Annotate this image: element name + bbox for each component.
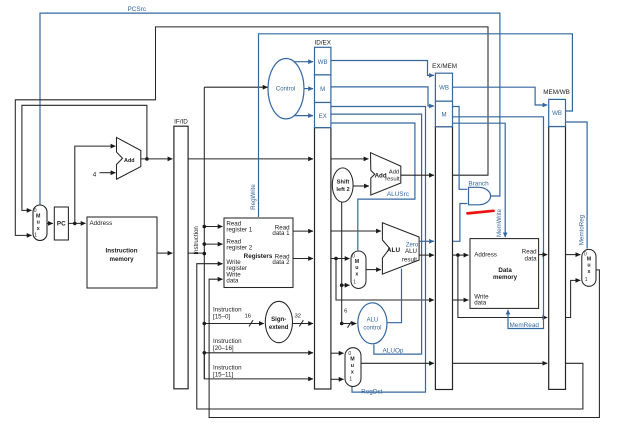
wire shift-left-2 to branch adder bbox=[353, 185, 369, 187]
svg-text:ALU: ALU bbox=[387, 247, 401, 254]
svg-text:PC: PC bbox=[57, 220, 66, 227]
wire ALUSrc (ID/EX EX to ALU mux select) bbox=[331, 123, 415, 250]
wire write register number RegDst mux to EX/MEM bbox=[361, 362, 434, 364]
svg-text:WB: WB bbox=[439, 85, 449, 92]
svg-text:u: u bbox=[587, 263, 590, 269]
svg-text:Address: Address bbox=[90, 220, 113, 227]
svg-text:x: x bbox=[351, 369, 354, 375]
wire read data 1 to ID/EX bbox=[293, 230, 313, 232]
svg-text:Add: Add bbox=[124, 158, 134, 164]
svg-text:x: x bbox=[588, 269, 591, 275]
wire ALU result EX/MEM to data memory address bbox=[453, 253, 469, 257]
wire read data 1 ID/EX to ALU bbox=[331, 230, 381, 232]
mux write-back (MemtoReg) bbox=[582, 249, 596, 286]
svg-text:M: M bbox=[441, 112, 446, 119]
svg-text:ALU: ALU bbox=[367, 318, 379, 324]
svg-text:Instruction: Instruction bbox=[193, 226, 200, 255]
wire sign-extend to ID/EX bbox=[293, 314, 314, 327]
wire ID/EX [15-11] to RegDst mux bbox=[331, 378, 344, 380]
wire ALU result bypass to MEM/WB bbox=[458, 255, 547, 317]
svg-text:MEM/WB: MEM/WB bbox=[543, 89, 570, 96]
svg-text:u: u bbox=[351, 363, 354, 369]
svg-text:data 1: data 1 bbox=[272, 230, 290, 237]
wire instruction [20-16] to ID/EX bbox=[203, 351, 314, 355]
svg-text:[15–0]: [15–0] bbox=[213, 313, 230, 320]
wire ID/EX M to EX/MEM M bbox=[331, 87, 434, 106]
svg-text:PCSrc: PCSrc bbox=[127, 6, 146, 13]
svg-text:left 2: left 2 bbox=[336, 187, 349, 193]
wire ALU result to EX/MEM bbox=[419, 254, 434, 256]
pipeline register MEM/WB bbox=[543, 89, 570, 389]
svg-text:M: M bbox=[350, 357, 355, 363]
svg-text:16: 16 bbox=[245, 314, 252, 320]
svg-text:1: 1 bbox=[353, 279, 356, 285]
pipeline register ID/EX bbox=[314, 40, 331, 389]
svg-text:Branch: Branch bbox=[468, 181, 489, 188]
EX/MEM WB field bbox=[435, 73, 452, 101]
svg-text:x: x bbox=[37, 226, 40, 232]
svg-text:MemWrite: MemWrite bbox=[496, 208, 503, 237]
svg-text:[20–16]: [20–16] bbox=[213, 345, 234, 352]
wire EX/MEM WB to MEM/WB WB bbox=[453, 87, 548, 105]
adder Add (branch target) bbox=[371, 153, 401, 195]
svg-text:Shift: Shift bbox=[337, 180, 350, 186]
svg-text:memory: memory bbox=[109, 256, 134, 263]
wire PC to instruction memory bbox=[68, 222, 85, 224]
svg-text:Sign-: Sign- bbox=[271, 316, 286, 323]
wire zero EX/MEM to AND gate bbox=[453, 204, 468, 242]
wire control to ID/EX M bbox=[304, 88, 313, 90]
svg-text:MemRead: MemRead bbox=[509, 322, 539, 329]
svg-text:memory: memory bbox=[493, 274, 518, 281]
wire read data 2 to ID/EX bbox=[293, 258, 313, 260]
wire read data MEM/WB to write-back mux 0 bbox=[566, 254, 581, 256]
wire funct to ALU control bbox=[342, 309, 357, 328]
svg-text:register 2: register 2 bbox=[226, 244, 252, 251]
wire sign-extend branch (vertical to shift-left-2 and ALU mux) bbox=[340, 202, 350, 325]
svg-text:6: 6 bbox=[344, 309, 348, 315]
pipeline register IF/ID bbox=[174, 118, 188, 388]
svg-text:ID/EX: ID/EX bbox=[314, 40, 331, 47]
wire data memory read data to MEM/WB bbox=[539, 254, 548, 256]
wire RegWrite (MEM/WB WB back to registers) bbox=[259, 34, 573, 217]
wire write data memory (EX/MEM to data memory) bbox=[453, 299, 469, 301]
pipeline register EX/MEM bbox=[432, 63, 457, 389]
data memory bbox=[470, 239, 539, 309]
wire RegDst (ID/EX EX to RegDst mux) bbox=[331, 107, 426, 393]
junction PC+4 bbox=[145, 157, 149, 161]
wire PC+4 IF/ID to ID/EX bbox=[188, 158, 313, 160]
svg-text:1: 1 bbox=[349, 377, 352, 383]
wire ID/EX [20-16] to RegDst mux bbox=[331, 352, 344, 354]
MEM/WB WB field bbox=[549, 99, 566, 126]
svg-text:result: result bbox=[385, 177, 400, 183]
wire instruction [15-0] to sign-extend bbox=[203, 314, 264, 327]
wire MemtoReg (MEM/WB WB to write-back mux select) bbox=[566, 122, 588, 249]
svg-text:4: 4 bbox=[93, 171, 97, 178]
wire mux to PC bbox=[47, 222, 53, 224]
svg-text:M: M bbox=[355, 259, 360, 265]
registers file bbox=[224, 218, 293, 288]
wire Branch (EX/MEM M to AND gate) bbox=[453, 107, 468, 190]
svg-text:x: x bbox=[355, 271, 358, 277]
ALU bbox=[382, 223, 419, 274]
wire ALU result MEM/WB to write-back mux 1 bbox=[566, 280, 581, 317]
svg-text:[15–11]: [15–11] bbox=[213, 371, 233, 378]
wire PC to Add bbox=[75, 146, 116, 223]
svg-text:EX: EX bbox=[319, 113, 327, 120]
svg-text:control: control bbox=[363, 325, 381, 331]
junction PC output bbox=[73, 222, 77, 226]
svg-text:MemtoReg: MemtoReg bbox=[579, 214, 586, 245]
svg-text:WB: WB bbox=[552, 110, 562, 117]
svg-text:Registers: Registers bbox=[244, 253, 273, 260]
instruction memory bbox=[87, 217, 157, 288]
wire instruction [15-11] to ID/EX bbox=[204, 353, 313, 379]
wire PCSrc (blue, AND gate to PC mux select) bbox=[40, 13, 500, 204]
svg-text:Add: Add bbox=[389, 169, 399, 175]
svg-text:IF/ID: IF/ID bbox=[174, 118, 188, 125]
svg-text:ALUOp: ALUOp bbox=[383, 347, 404, 354]
wire 4 to Add bbox=[100, 172, 116, 174]
wire PC+4 to mux input 0 bbox=[22, 105, 147, 210]
svg-text:1: 1 bbox=[585, 277, 588, 283]
wire ALU mux to ALU bbox=[366, 269, 381, 271]
svg-text:Control: Control bbox=[276, 86, 295, 92]
wire ALU control to ALU bbox=[387, 269, 402, 323]
shift left 2 unit bbox=[332, 168, 353, 202]
wire read data 2 ID/EX to ALU mux and EX/MEM bbox=[331, 257, 434, 300]
svg-text:RegDst: RegDst bbox=[361, 389, 383, 396]
wire branch target (EX/MEM to PC mux input 1) bbox=[15, 27, 488, 236]
svg-text:M: M bbox=[320, 86, 325, 93]
mux ALUSrc bbox=[351, 251, 366, 289]
wire branch adder to EX/MEM bbox=[401, 174, 434, 176]
svg-text:RegWrite: RegWrite bbox=[250, 184, 257, 210]
svg-text:Instruction: Instruction bbox=[106, 248, 138, 255]
ID/EX WB field bbox=[315, 47, 331, 75]
svg-text:ALU: ALU bbox=[405, 248, 417, 255]
register PC bbox=[54, 207, 68, 240]
mux PC source bbox=[33, 205, 47, 241]
wire write-back mux output to registers write data bbox=[209, 270, 599, 418]
svg-text:data: data bbox=[525, 255, 538, 262]
wire MemWrite (EX/MEM M to data memory top) bbox=[453, 123, 506, 237]
annotation red marker line bbox=[468, 211, 494, 214]
svg-text:M: M bbox=[36, 213, 41, 219]
ALU control unit bbox=[358, 303, 387, 344]
AND gate branch bbox=[469, 187, 491, 205]
svg-text:data: data bbox=[474, 300, 487, 307]
svg-text:ALUSrc: ALUSrc bbox=[387, 191, 410, 198]
wire write register number EX/MEM to MEM/WB bbox=[453, 362, 548, 364]
svg-text:result: result bbox=[402, 256, 417, 263]
wire control to ID/EX WB bbox=[295, 61, 314, 63]
adder Add (PC+4) bbox=[117, 137, 141, 179]
wire PC+4 ID/EX to branch adder bbox=[331, 158, 369, 160]
wire MemRead (EX/MEM M to data memory bottom) bbox=[453, 117, 544, 329]
wire instruction memory to IF/ID bbox=[157, 252, 172, 254]
wire ID/EX WB to EX/MEM WB bbox=[331, 61, 434, 76]
svg-text:register 1: register 1 bbox=[226, 226, 252, 233]
svg-text:data: data bbox=[226, 277, 239, 284]
svg-text:32: 32 bbox=[295, 314, 302, 320]
svg-text:WB: WB bbox=[318, 59, 328, 66]
wire Add output to IF/ID bbox=[141, 158, 173, 160]
svg-text:u: u bbox=[37, 220, 40, 226]
svg-text:data 2: data 2 bbox=[272, 259, 290, 266]
svg-text:extend: extend bbox=[269, 324, 289, 331]
wire instruction distribution bbox=[188, 87, 267, 379]
svg-text:u: u bbox=[355, 265, 358, 271]
control unit bbox=[268, 58, 304, 118]
ID/EX EX field bbox=[315, 103, 331, 128]
svg-text:EX/MEM: EX/MEM bbox=[432, 63, 457, 70]
svg-text:M: M bbox=[587, 256, 592, 262]
mux RegDst bbox=[345, 348, 361, 387]
wire write register number MEM/WB back to registers bbox=[197, 264, 583, 409]
sign-extend unit bbox=[265, 301, 292, 342]
wire ALU zero to EX/MEM bbox=[419, 240, 434, 242]
EX/MEM M field bbox=[435, 101, 452, 127]
wire control to ID/EX EX bbox=[295, 115, 314, 117]
wire ALUOp (ID/EX EX to ALU control) bbox=[331, 114, 422, 354]
svg-text:Address: Address bbox=[474, 252, 497, 259]
ID/EX M field bbox=[315, 75, 331, 103]
svg-text:1: 1 bbox=[34, 233, 37, 239]
